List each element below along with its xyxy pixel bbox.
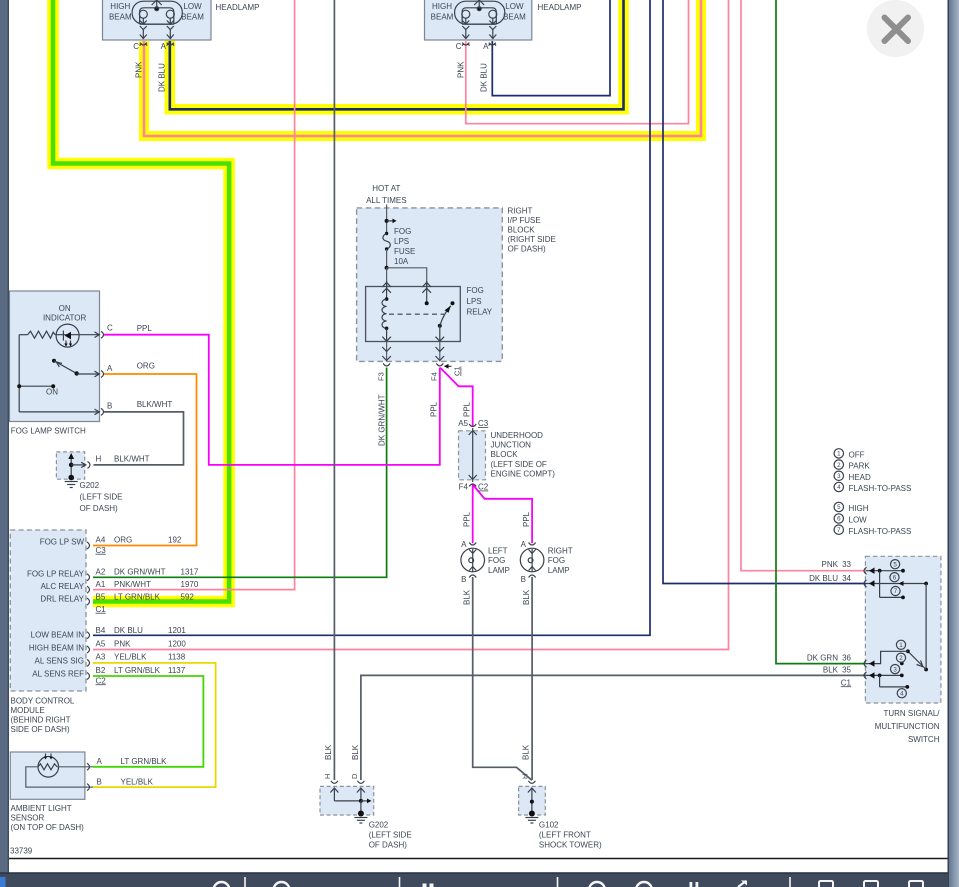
- svg-text:7: 7: [894, 588, 898, 595]
- svg-text:FLASH-TO-PASS: FLASH-TO-PASS: [849, 527, 912, 536]
- svg-text:LT GRN/BLK: LT GRN/BLK: [114, 592, 161, 601]
- svg-text:SHOCK TOWER): SHOCK TOWER): [539, 841, 602, 850]
- svg-text:LAMP: LAMP: [548, 566, 570, 575]
- BCM pin names: [27, 537, 85, 678]
- svg-text:A5: A5: [96, 639, 106, 648]
- svg-text:2: 2: [899, 655, 903, 662]
- rotated wire label PPL at junction feed: [463, 401, 472, 417]
- svg-text:PNK/WHT: PNK/WHT: [114, 580, 151, 589]
- svg-text:(ON TOP OF DASH): (ON TOP OF DASH): [11, 823, 85, 832]
- label ON at switch contact: [46, 388, 58, 397]
- svg-text:B: B: [107, 402, 112, 411]
- wire: DK BLU 1201 low beam in: [93, 0, 650, 635]
- svg-text:YEL/BLK: YEL/BLK: [121, 777, 154, 786]
- svg-text:BEAM: BEAM: [109, 13, 132, 22]
- svg-text:AL SENS REF: AL SENS REF: [32, 669, 84, 678]
- svg-text:A: A: [97, 757, 103, 766]
- label TURN SIGNAL MULTIFUNCTION SWITCH: [875, 709, 941, 744]
- svg-text:A4: A4: [96, 536, 106, 545]
- svg-text:B5: B5: [96, 592, 106, 601]
- splice to relay branches: [385, 266, 427, 287]
- ambient light sensor photocell: [26, 754, 93, 788]
- toolbar icon: rect 1: [819, 881, 833, 887]
- bottom toolbar: [0, 872, 948, 887]
- svg-text:DK BLU: DK BLU: [158, 63, 167, 92]
- wire label PPL at switch: [137, 324, 153, 333]
- rotated wire label BLK right fog lamp: [522, 589, 531, 605]
- wire label BLK/WHT at switch B: [137, 400, 173, 409]
- wire: ORG 192 fog lp sw: [93, 374, 197, 546]
- label FOG LPS FUSE 10A: [394, 227, 415, 266]
- svg-text:DK GRN/WHT: DK GRN/WHT: [114, 567, 166, 576]
- legend circled numbers 1-7: [834, 449, 843, 535]
- rotated wire label PPL at F4: [430, 401, 439, 417]
- svg-text:HOT AT: HOT AT: [372, 184, 400, 193]
- BCM row B2 LT GRN/BLK 1137: [96, 666, 186, 675]
- svg-text:C1: C1: [453, 366, 462, 376]
- svg-text:BEAM: BEAM: [431, 13, 454, 22]
- svg-text:A: A: [161, 42, 167, 51]
- svg-text:FOG: FOG: [548, 556, 565, 565]
- svg-text:LPS: LPS: [394, 237, 409, 246]
- wire: PPL from switch C to relay F4: [103, 335, 440, 465]
- svg-text:3: 3: [837, 473, 841, 480]
- left headlamp pin A bracket: [167, 43, 175, 46]
- svg-text:2: 2: [837, 462, 841, 469]
- G102 pin bracket H: [528, 781, 535, 784]
- svg-text:35: 35: [842, 666, 851, 675]
- right headlamp bulb symbol: [455, 0, 505, 39]
- svg-text:C3: C3: [96, 546, 107, 555]
- toolbar icon: bars: [690, 882, 699, 887]
- svg-text:RELAY: RELAY: [467, 308, 493, 317]
- F3 pin bracket: [383, 363, 390, 366]
- fog lps fuse 10A element: [383, 232, 390, 268]
- svg-text:1138: 1138: [168, 653, 186, 662]
- wire: DK GRN 36 to multifunction switch: [776, 0, 866, 664]
- wire: right headlamp C PNK: [466, 0, 689, 124]
- label BODY CONTROL MODULE: [11, 697, 75, 735]
- underhood junction block dashed box: [459, 431, 486, 480]
- svg-text:10A: 10A: [394, 257, 409, 266]
- svg-text:1317: 1317: [181, 567, 199, 576]
- rotated pin letters H D at G202 and H at G102: [323, 773, 530, 779]
- svg-text:1200: 1200: [168, 639, 186, 648]
- svg-text:BLK: BLK: [823, 666, 839, 675]
- svg-text:A: A: [483, 42, 489, 51]
- svg-text:(LEFT SIDE: (LEFT SIDE: [369, 831, 412, 840]
- left headlamp bulb symbol: [132, 0, 182, 39]
- svg-text:FOG LAMP SWITCH: FOG LAMP SWITCH: [11, 427, 86, 436]
- wire: BLK/WHT switch B to G202 H: [94, 412, 184, 465]
- wire: PPL relay F4 to junction block A5: [440, 368, 472, 427]
- svg-text:PNK: PNK: [822, 560, 839, 569]
- svg-text:33739: 33739: [10, 847, 33, 856]
- wire: DK BLU 34 to multifunction switch: [663, 0, 866, 584]
- label G202 bottom: [369, 821, 412, 850]
- svg-text:UNDERHOOD: UNDERHOOD: [491, 431, 544, 440]
- toolbar icon: circle 3: [589, 882, 605, 887]
- fuse feed wire hot at all times: [386, 205, 388, 234]
- left headlamp box: [103, 0, 212, 40]
- junction block pin labels A5 C3: [458, 419, 489, 428]
- ambient sensor pin brackets A B: [87, 763, 90, 790]
- svg-text:ON: ON: [46, 388, 58, 397]
- label RIGHT I/P FUSE BLOCK: [508, 207, 556, 254]
- wire: PPL junction block C2 to right fog lamp: [473, 485, 532, 544]
- label G202 LEFT SIDE OF DASH upper: [80, 481, 123, 513]
- svg-text:ENGINE COMPT): ENGINE COMPT): [491, 470, 556, 479]
- right headlamp pin letters: [456, 42, 489, 51]
- toolbar icon: arrow: [738, 881, 747, 887]
- label G102 bottom: [539, 821, 602, 850]
- G202 bottom pin brackets H D: [331, 781, 365, 784]
- svg-text:YEL/BLK: YEL/BLK: [114, 653, 147, 662]
- rotated connector label C1 at relay: [453, 366, 462, 376]
- svg-text:G102: G102: [539, 821, 559, 830]
- svg-text:I/P FUSE: I/P FUSE: [508, 216, 541, 225]
- svg-text:BLK: BLK: [522, 589, 531, 605]
- ambient sensor pin rows: [97, 757, 168, 786]
- wire: PPL junction block C2 to left fog lamp: [472, 485, 474, 544]
- fog lps relay box: [366, 287, 461, 342]
- svg-text:PPL: PPL: [463, 511, 472, 527]
- multifunction switch internals: [866, 569, 928, 689]
- left page edge strip: [0, 0, 9, 873]
- svg-text:AL SENS SIG: AL SENS SIG: [35, 656, 85, 665]
- turn signal / multifunction switch dashed box: [865, 556, 941, 703]
- svg-text:FOG: FOG: [394, 227, 411, 236]
- G102 ground box (bottom): [519, 786, 546, 815]
- svg-text:PPL: PPL: [430, 401, 439, 417]
- svg-text:1137: 1137: [168, 666, 186, 675]
- F4 pin bracket: [436, 363, 443, 366]
- rotated wire label PPL left fog lamp: [463, 511, 472, 527]
- fog lamp switch box: [10, 291, 100, 422]
- svg-text:B4: B4: [96, 626, 106, 635]
- svg-text:INDICATOR: INDICATOR: [43, 313, 86, 322]
- svg-text:BLK: BLK: [522, 744, 531, 760]
- left headlamp labels: [109, 2, 204, 22]
- svg-text:3: 3: [893, 666, 897, 673]
- svg-text:G202: G202: [369, 821, 389, 830]
- fog lamp switch ON indicator LED: [55, 324, 99, 347]
- svg-text:(LEFT SIDE: (LEFT SIDE: [80, 493, 123, 502]
- svg-text:HIGH: HIGH: [110, 2, 130, 11]
- svg-text:BEAM: BEAM: [503, 13, 526, 22]
- svg-text:DK GRN/WHT: DK GRN/WHT: [378, 394, 387, 446]
- underhood junction block internal path: [469, 428, 477, 482]
- highlight trace: yellow band on left headlamp PNK wire: [144, 0, 701, 136]
- svg-text:PARK: PARK: [849, 462, 871, 471]
- junction block pin bracket A5/C3: [469, 424, 476, 427]
- svg-text:MULTIFUNCTION: MULTIFUNCTION: [875, 722, 940, 731]
- label FOG LPS RELAY: [467, 286, 493, 317]
- BCM connector label C2: [96, 676, 107, 685]
- toolbar icon: dots: [423, 884, 434, 887]
- wire label ORG at switch: [137, 362, 155, 371]
- svg-text:ALC RELAY: ALC RELAY: [41, 582, 85, 591]
- label UNDERHOOD JUNCTION BLOCK: [491, 431, 556, 479]
- svg-text:4: 4: [837, 484, 841, 491]
- wire: left headlamp A DK BLU (highlighted): [170, 0, 624, 109]
- svg-text:C2: C2: [96, 676, 107, 685]
- G202 upper ground symbol: [65, 453, 86, 488]
- highlight trace: yellow band on LT GRN/BLK 592 DRL wire: [53, 0, 229, 602]
- right headlamp pin A bracket: [489, 43, 497, 46]
- toolbar icon: circle 1: [214, 882, 230, 887]
- svg-text:FOG: FOG: [488, 556, 505, 565]
- G102 ground internals: [525, 788, 538, 824]
- wire: BLK right fog lamp ground: [531, 577, 533, 780]
- svg-text:C2: C2: [478, 483, 489, 492]
- svg-text:PNK: PNK: [135, 61, 144, 78]
- svg-text:RIGHT: RIGHT: [508, 207, 533, 216]
- svg-text:G202: G202: [80, 481, 100, 490]
- splice dot with right arrow: [385, 219, 397, 224]
- svg-text:BLK: BLK: [351, 744, 360, 760]
- svg-text:AMBIENT LIGHT: AMBIENT LIGHT: [11, 804, 72, 813]
- svg-text:BLOCK: BLOCK: [491, 450, 519, 459]
- label LEFT FOG LAMP: [488, 546, 510, 575]
- BCM row B5 LT GRN/BLK 592: [96, 592, 195, 601]
- wire: BLK headlamp ground to G202 H: [333, 0, 335, 780]
- label ON INDICATOR: [43, 304, 86, 323]
- rotated wire label PPL right fog lamp: [522, 511, 531, 527]
- rotated wire label PNK right lamp: [457, 61, 466, 78]
- right fog lamp bulb: [520, 548, 544, 572]
- svg-text:1: 1: [899, 642, 903, 649]
- svg-text:(LEFT SIDE OF: (LEFT SIDE OF: [491, 460, 547, 469]
- svg-text:592: 592: [181, 592, 195, 601]
- left fog lamp bulb: [461, 548, 485, 572]
- wire: BLK left fog lamp ground: [473, 577, 532, 780]
- wire: PNK 33 to multifunction switch: [741, 0, 866, 571]
- body control module connector dashed box: [10, 530, 86, 691]
- bottom-left blue corner: [0, 877, 6, 887]
- BCM connector pin brackets: [87, 542, 90, 680]
- label AMBIENT LIGHT SENSOR: [11, 804, 85, 832]
- ambient light sensor box: [10, 752, 85, 799]
- diagram bottom border line: [8, 858, 948, 860]
- svg-text:RIGHT: RIGHT: [548, 546, 573, 555]
- svg-text:FOG: FOG: [467, 286, 484, 295]
- toolbar icon: circle 4: [636, 882, 652, 887]
- svg-text:ON: ON: [59, 304, 71, 313]
- label FOG LAMP SWITCH: [11, 427, 86, 436]
- svg-text:HEADLAMP: HEADLAMP: [538, 3, 582, 12]
- wire: YEL/BLK 1138 al sens sig to ambient sensor: [93, 663, 216, 787]
- svg-text:PPL: PPL: [137, 324, 153, 333]
- svg-text:5: 5: [893, 561, 897, 568]
- svg-text:BODY CONTROL: BODY CONTROL: [11, 697, 75, 706]
- svg-text:H: H: [323, 774, 332, 779]
- svg-text:DRL RELAY: DRL RELAY: [40, 594, 84, 603]
- right headlamp pin C bracket: [462, 43, 470, 46]
- wire: left headlamp C PNK (highlighted): [144, 0, 701, 136]
- rotated wire label DK BLU right lamp: [480, 63, 489, 92]
- svg-text:A: A: [107, 364, 113, 373]
- svg-text:FUSE: FUSE: [394, 247, 415, 256]
- svg-text:1201: 1201: [168, 626, 186, 635]
- svg-text:BLOCK: BLOCK: [508, 226, 536, 235]
- svg-text:DK BLU: DK BLU: [809, 574, 838, 583]
- toolbar icon: rect 2: [864, 881, 878, 887]
- BCM row A3 YEL/BLK 1138: [96, 653, 186, 662]
- svg-text:F4: F4: [430, 372, 439, 381]
- svg-text:B: B: [97, 777, 102, 786]
- svg-text:D: D: [350, 773, 359, 779]
- svg-text:MODULE: MODULE: [11, 706, 45, 715]
- rotated pin label F3: [377, 372, 386, 381]
- svg-text:33: 33: [842, 560, 851, 569]
- svg-text:HIGH: HIGH: [432, 2, 452, 11]
- svg-text:DK BLU: DK BLU: [114, 626, 143, 635]
- right I/P fuse block dashed box: [357, 208, 503, 362]
- svg-text:B: B: [461, 575, 466, 584]
- svg-text:192: 192: [168, 536, 182, 545]
- svg-text:TURN SIGNAL/: TURN SIGNAL/: [883, 709, 940, 718]
- label HEADLAMP left: [216, 3, 260, 12]
- svg-text:BEAM: BEAM: [181, 13, 204, 22]
- label RIGHT FOG LAMP: [548, 546, 573, 575]
- svg-text:LOW: LOW: [849, 516, 868, 525]
- svg-text:H: H: [521, 774, 530, 779]
- svg-text:OFF: OFF: [849, 451, 865, 460]
- svg-text:C: C: [133, 42, 139, 51]
- svg-text:PNK: PNK: [114, 639, 131, 648]
- svg-text:1970: 1970: [181, 580, 199, 589]
- svg-text:FOG LP SW: FOG LP SW: [40, 537, 85, 546]
- svg-text:F3: F3: [377, 372, 386, 381]
- relay actuation dashed link: [389, 313, 444, 315]
- wire: LT GRN/BLK 1137 al sens ref to ambient sensor: [93, 676, 203, 767]
- svg-text:A5: A5: [458, 419, 468, 428]
- svg-text:LAMP: LAMP: [488, 566, 510, 575]
- switch pin letters C A B: [107, 324, 113, 411]
- fog lamp switch arm: [52, 359, 100, 377]
- right headlamp labels: [431, 2, 526, 22]
- svg-text:SIDE OF DASH): SIDE OF DASH): [11, 725, 70, 734]
- svg-text:OF DASH): OF DASH): [508, 245, 547, 254]
- relay coil: [382, 297, 388, 341]
- svg-text:BLK: BLK: [324, 744, 333, 760]
- left fog lamp pin brackets: [469, 543, 476, 578]
- rotated wire label PNK left lamp: [135, 61, 144, 78]
- svg-text:(RIGHT SIDE: (RIGHT SIDE: [508, 235, 556, 244]
- svg-text:(BEHIND RIGHT: (BEHIND RIGHT: [11, 716, 71, 725]
- toolbar icon: rect 3: [909, 881, 923, 887]
- relay switch contacts and arm: [425, 301, 455, 341]
- svg-text:C: C: [456, 42, 462, 51]
- svg-text:LT GRN/BLK: LT GRN/BLK: [114, 666, 161, 675]
- svg-text:LPS: LPS: [467, 297, 482, 306]
- BCM row B4 DK BLU 1201: [96, 626, 187, 635]
- svg-text:C3: C3: [478, 419, 489, 428]
- toolbar separators: [244, 877, 791, 887]
- highlight trace: yellow band on left headlamp DK BLU wire: [170, 0, 624, 109]
- label HOT AT ALL TIMES: [366, 184, 406, 205]
- relay switch input arrow pin: [422, 281, 431, 303]
- svg-text:(LEFT FRONT: (LEFT FRONT: [539, 831, 591, 840]
- multifunction switch pin brackets with arrows: [864, 567, 875, 679]
- BCM row A1 PNK/WHT 1970: [96, 580, 199, 589]
- svg-text:A: A: [461, 540, 467, 549]
- junction block pin bracket F4/C2: [469, 484, 476, 487]
- svg-text:LOW: LOW: [505, 2, 524, 11]
- right headlamp box: [425, 0, 532, 40]
- svg-text:C1: C1: [96, 605, 107, 614]
- rotated pin label F4: [430, 372, 439, 381]
- svg-text:ORG: ORG: [137, 362, 155, 371]
- rotated wire label DK GRN/WHT: [378, 394, 387, 446]
- svg-text:1: 1: [837, 451, 841, 458]
- svg-text:BLK/WHT: BLK/WHT: [137, 400, 173, 409]
- svg-text:LOW: LOW: [183, 2, 202, 11]
- G202 upper H pin bracket: [88, 461, 91, 468]
- BCM connector label C3: [96, 546, 107, 555]
- relay coil input arrow pin: [382, 281, 391, 299]
- svg-text:HIGH: HIGH: [849, 504, 869, 513]
- svg-text:HEAD: HEAD: [849, 473, 871, 482]
- BCM row A4 ORG 192: [96, 536, 182, 545]
- svg-text:PNK: PNK: [457, 61, 466, 78]
- fog lamp pin letters: [461, 540, 527, 584]
- svg-text:F4: F4: [459, 483, 469, 492]
- G202 upper pin H and wire label: [96, 455, 150, 464]
- fog lamp switch ON contact: [17, 335, 99, 415]
- left headlamp pin letters: [133, 42, 166, 51]
- svg-text:OF DASH): OF DASH): [369, 841, 408, 850]
- BCM row A2 DK GRN/WHT 1317: [96, 567, 199, 576]
- svg-text:DK BLU: DK BLU: [480, 63, 489, 92]
- BCM row A5 PNK 1200: [96, 639, 187, 648]
- svg-text:C: C: [107, 324, 113, 333]
- svg-text:LEFT: LEFT: [488, 546, 508, 555]
- fog lamp switch pin brackets C A B: [101, 331, 104, 415]
- svg-text:A: A: [521, 540, 527, 549]
- svg-text:HIGH BEAM IN: HIGH BEAM IN: [29, 643, 84, 652]
- svg-text:6: 6: [893, 574, 897, 581]
- C1 left arrow marker at F4: [444, 364, 452, 369]
- svg-text:BLK/WHT: BLK/WHT: [114, 455, 150, 464]
- svg-text:7: 7: [837, 527, 841, 534]
- svg-text:B: B: [521, 575, 526, 584]
- rotated wire label BLK left fog lamp: [463, 589, 472, 605]
- multifunction pin wire labels: [807, 560, 852, 687]
- svg-text:LT GRN/BLK: LT GRN/BLK: [121, 757, 168, 766]
- relay switch output exit arrows to F4: [436, 337, 445, 362]
- label HEADLAMP right: [538, 3, 582, 12]
- svg-text:A1: A1: [96, 580, 106, 589]
- svg-text:JUNCTION: JUNCTION: [491, 441, 532, 450]
- svg-text:HEADLAMP: HEADLAMP: [216, 3, 260, 12]
- switch position digits: [893, 561, 904, 697]
- wire: DK GRN/WHT 1317 fog lp relay: [93, 368, 387, 578]
- svg-text:BLK: BLK: [463, 589, 472, 605]
- svg-text:6: 6: [837, 516, 841, 523]
- right fog lamp pin brackets: [529, 543, 536, 578]
- svg-text:36: 36: [842, 653, 851, 662]
- diagram number 33739: [10, 847, 33, 856]
- svg-text:34: 34: [842, 574, 851, 583]
- wire: PNK 1200 high beam in: [93, 0, 729, 650]
- legend circled digits: [837, 451, 841, 534]
- svg-text:LOW BEAM IN: LOW BEAM IN: [31, 630, 85, 639]
- svg-text:ALL TIMES: ALL TIMES: [366, 196, 406, 205]
- G202 ground box (bottom): [320, 786, 374, 815]
- wire: PNK/WHT 1970 ALC relay: [93, 0, 295, 590]
